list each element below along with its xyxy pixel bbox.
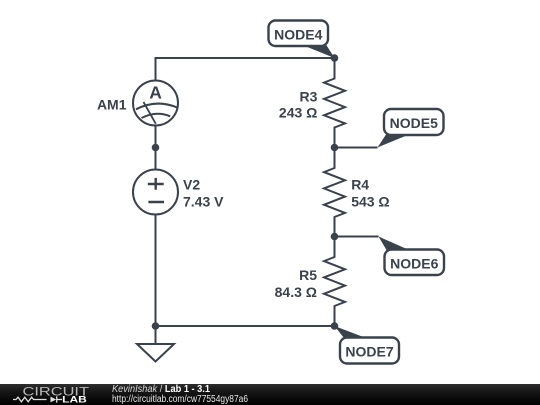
node dot NODE6 junction	[331, 233, 339, 241]
ammeter scale arc inner	[142, 114, 171, 118]
callout box NODE6	[385, 250, 445, 276]
CircuitLab logo resistor-diode glyph	[13, 396, 62, 402]
node dot NODE7 junction	[331, 322, 339, 330]
node dot NODE4 junction	[331, 54, 339, 62]
svg-text:543 Ω: 543 Ω	[351, 193, 389, 209]
wire V2 bottom to ground junction	[155, 215, 157, 327]
resistor R3	[324, 58, 345, 148]
callout pointer NODE4	[303, 45, 335, 58]
wire NODE5 stub	[335, 147, 378, 149]
svg-text:AM1: AM1	[97, 97, 127, 113]
svg-text:84.3 Ω: 84.3 Ω	[275, 284, 317, 300]
node dot ground junction	[152, 322, 160, 330]
svg-text:NODE4: NODE4	[274, 26, 322, 42]
svg-text:LAB: LAB	[62, 394, 87, 404]
footer bar	[0, 384, 540, 405]
callout box NODE5	[384, 109, 444, 135]
svg-text:R4: R4	[351, 177, 369, 193]
svg-text:243 Ω: 243 Ω	[279, 105, 317, 121]
wire NODE6 stub	[335, 236, 379, 238]
wire ammeter to V2	[155, 126, 157, 170]
svg-text:R5: R5	[299, 267, 317, 283]
resistor R4	[324, 148, 345, 237]
callout box NODE4	[269, 21, 329, 47]
callout pointer NODE5	[378, 135, 410, 148]
ground	[137, 344, 174, 362]
wire top rail from ammeter to NODE4	[156, 58, 335, 81]
svg-text:7.43 V: 7.43 V	[183, 193, 224, 209]
V2 minus sign	[148, 201, 164, 203]
svg-text:V2: V2	[183, 177, 200, 193]
wire ground stem	[155, 326, 157, 344]
callout pointer NODE6	[379, 237, 410, 251]
svg-text:A: A	[149, 83, 162, 103]
callout pointer NODE7	[335, 326, 367, 338]
node dot between ammeter and V2	[152, 144, 160, 152]
svg-text:http://circuitlab.com/cw77554g: http://circuitlab.com/cw77554gy87a6	[112, 394, 248, 405]
svg-text:R3: R3	[299, 88, 317, 104]
ammeter AM1	[133, 81, 178, 126]
ammeter scale arc outer	[136, 104, 177, 110]
svg-text:NODE5: NODE5	[390, 115, 438, 131]
svg-text:NODE6: NODE6	[390, 255, 438, 271]
voltage source V2	[133, 170, 178, 215]
resistor R5	[324, 237, 345, 327]
node dot NODE5 junction	[331, 144, 339, 152]
svg-text:NODE7: NODE7	[345, 344, 393, 360]
V2 plus sign	[148, 178, 164, 190]
wire bottom rail	[156, 325, 335, 327]
callout box NODE7	[340, 338, 399, 364]
ammeter needle	[144, 102, 156, 124]
